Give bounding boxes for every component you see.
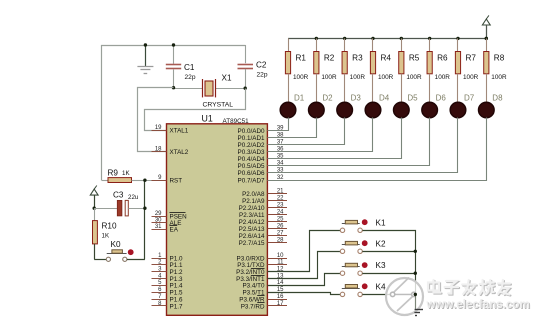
svg-text:100R: 100R: [435, 74, 451, 81]
pin 6 P1.5: [152, 292, 167, 294]
svg-text:32: 32: [277, 175, 284, 181]
svg-text:K0: K0: [111, 240, 121, 249]
svg-text:26: 26: [277, 223, 284, 229]
wire D3 to P0.2: [268, 118, 345, 145]
svg-text:100R: 100R: [321, 74, 337, 81]
resistor R5: [400, 37, 403, 40]
svg-text:D1: D1: [294, 94, 305, 103]
node J1: [93, 207, 96, 210]
svg-text:28: 28: [277, 237, 284, 243]
pin 26 P2.5/A13: [267, 228, 287, 230]
svg-text:XTAL2: XTAL2: [170, 149, 189, 156]
svg-text:R4: R4: [380, 54, 391, 63]
svg-text:100R: 100R: [378, 74, 394, 81]
op: microcontroller U1 AT89C51 body: [167, 124, 268, 315]
svg-text:1K: 1K: [102, 233, 110, 240]
pin 3 P1.2: [152, 271, 167, 273]
svg-text:D3: D3: [351, 94, 362, 103]
svg-text:U1: U1: [202, 114, 213, 124]
LED D7: [457, 74, 459, 103]
svg-text:100R: 100R: [293, 74, 309, 81]
resistor R9: [102, 180, 108, 182]
wire keys common to ground: [363, 231, 416, 309]
wire D7 to P0.6: [268, 118, 458, 173]
svg-text:P2.4/A12: P2.4/A12: [239, 219, 265, 226]
svg-text:P2.2/A10: P2.2/A10: [239, 205, 265, 212]
wire D5 to P0.4: [268, 118, 402, 159]
svg-text:www.elecfans.com: www.elecfans.com: [426, 298, 530, 311]
svg-text:100R: 100R: [463, 74, 479, 81]
svg-text:22: 22: [277, 195, 284, 201]
pin 22 P2.1/A9: [267, 200, 287, 202]
svg-text:16: 16: [277, 294, 284, 300]
svg-text:P0.5/AD5: P0.5/AD5: [238, 163, 265, 170]
LED D2: [316, 74, 318, 103]
pin 12 P3.2/INT0: [267, 271, 287, 273]
svg-text:22u: 22u: [128, 194, 139, 201]
pin 24 P2.3/A11: [267, 214, 287, 216]
wire P3.2 to K1: [268, 231, 341, 272]
svg-text:D8: D8: [492, 94, 503, 103]
LED D1: [288, 74, 290, 103]
svg-text:18: 18: [155, 146, 162, 152]
pin 13 P3.3/INT1: [267, 278, 287, 280]
svg-text:P0.3/AD3: P0.3/AD3: [238, 149, 265, 156]
wire P3.4 to K3: [268, 274, 341, 286]
capacitor C2: [245, 45, 247, 63]
svg-text:17: 17: [277, 301, 284, 307]
watermark text dianzifashaoyou: [429, 281, 511, 296]
pin 5 P1.4: [152, 285, 167, 287]
svg-text:P2.0/A8: P2.0/A8: [242, 191, 265, 198]
pin 35 P0.4/AD4: [267, 158, 287, 160]
wire D2 to P0.1: [268, 118, 317, 138]
pin 29 PSEN: [152, 216, 167, 218]
pin 30 ALE: [152, 222, 167, 224]
crystal X1: [174, 88, 203, 90]
wire D4 to P0.3: [268, 118, 373, 152]
svg-text:100R: 100R: [491, 74, 507, 81]
pin 18 XTAL2: [152, 151, 167, 153]
pin 25 P2.4/A12: [267, 221, 287, 223]
svg-text:AT89C51: AT89C51: [223, 118, 250, 125]
svg-text:P0.4/AD4: P0.4/AD4: [238, 156, 265, 163]
svg-text:K1: K1: [376, 218, 386, 227]
pin 37 P0.2/AD2: [267, 144, 287, 146]
svg-text:CRYSTAL: CRYSTAL: [203, 102, 234, 109]
svg-text:22p: 22p: [257, 72, 268, 79]
LED D3: [344, 74, 346, 103]
resistor R6: [428, 37, 431, 40]
svg-text:R7: R7: [465, 54, 476, 63]
pin 4 P1.3: [152, 278, 167, 280]
svg-text:R1: R1: [296, 54, 307, 63]
wire LED power rail: [288, 38, 486, 40]
wire to XTAL1: [145, 89, 246, 131]
svg-text:P1.7: P1.7: [170, 303, 183, 310]
svg-text:1K: 1K: [122, 170, 130, 177]
svg-text:25: 25: [277, 216, 284, 222]
svg-text:EA: EA: [170, 227, 179, 234]
wire top-left rail: [102, 46, 246, 181]
node C1/XTAL2 junction: [172, 86, 175, 89]
pin 17 P3.7/RD: [267, 305, 287, 307]
svg-text:R3: R3: [352, 54, 363, 63]
pin 2 P1.1: [152, 264, 167, 266]
wire P3.5 to K4: [268, 293, 341, 295]
pin 15 P3.5/T1: [267, 292, 287, 294]
pin 36 P0.3/AD3: [267, 151, 287, 153]
pin 11 P3.1/TXD: [267, 264, 287, 266]
pin 39 P0.0/AD0: [267, 130, 287, 132]
svg-text:R2: R2: [324, 54, 335, 63]
wire RST: [145, 180, 167, 182]
svg-text:P0.6/AD6: P0.6/AD6: [238, 170, 265, 177]
svg-text:P2.7/A15: P2.7/A15: [239, 240, 265, 247]
watermark logo circle: [386, 278, 423, 315]
resistor R1: [288, 38, 290, 51]
ground (keys): [415, 294, 417, 309]
pin 7 P1.6: [152, 299, 167, 301]
LED D4: [372, 74, 374, 103]
svg-text:C2: C2: [256, 61, 267, 70]
vertical reset net wire: [144, 180, 146, 259]
svg-text:X1: X1: [222, 74, 232, 83]
button K0: [94, 259, 106, 261]
wire D1 to P0.0: [268, 118, 289, 131]
resistor R8: [485, 37, 488, 40]
pin 27 P2.6/A14: [267, 235, 287, 237]
pin 9 RST: [152, 180, 167, 182]
svg-text:R6: R6: [437, 54, 448, 63]
svg-text:21: 21: [277, 188, 284, 194]
svg-text:P2.5/A13: P2.5/A13: [239, 226, 265, 233]
svg-text:P2.6/A14: P2.6/A14: [239, 233, 265, 240]
svg-text:P0.0/AD0: P0.0/AD0: [238, 128, 265, 135]
node K4/ground junction: [414, 293, 417, 296]
power +5V (reset): [94, 186, 97, 190]
pin 38 P0.1/AD1: [267, 137, 287, 139]
capacitor C3: [94, 208, 117, 210]
svg-text:100R: 100R: [350, 74, 366, 81]
pin 16 P3.6/WR: [267, 299, 287, 301]
resistor R7: [456, 37, 459, 40]
svg-text:R10: R10: [102, 222, 117, 231]
svg-text:C3: C3: [113, 191, 124, 200]
svg-text:D5: D5: [407, 94, 418, 103]
pin 1 P1.0: [152, 258, 167, 260]
LED D8: [486, 74, 488, 103]
svg-text:24: 24: [277, 209, 284, 215]
pin 21 P2.0/A8: [267, 193, 287, 195]
svg-text:27: 27: [277, 230, 284, 236]
svg-text:D6: D6: [436, 94, 447, 103]
resistor R10: [94, 208, 96, 220]
svg-text:P0.2/AD2: P0.2/AD2: [238, 142, 265, 149]
svg-text:P0.1/AD1: P0.1/AD1: [238, 135, 265, 142]
LED D6: [429, 74, 431, 103]
resistor R3: [343, 37, 346, 40]
pin 32 P0.7/AD7: [267, 180, 287, 182]
power +5V (LED rail): [486, 15, 489, 19]
pin 23 P2.2/A10: [267, 207, 287, 209]
svg-text:30: 30: [155, 218, 162, 224]
pin 31 EA: [152, 229, 167, 231]
pin 14 P3.4/T0: [267, 285, 287, 287]
svg-text:D2: D2: [322, 94, 333, 103]
svg-text:11: 11: [277, 260, 284, 266]
resistor R2: [315, 37, 318, 40]
svg-text:P0.7/AD7: P0.7/AD7: [238, 177, 265, 184]
LED D5: [401, 74, 403, 103]
svg-text:K3: K3: [376, 261, 386, 270]
svg-text:22p: 22p: [185, 74, 196, 81]
svg-text:31: 31: [155, 224, 162, 230]
svg-text:R8: R8: [494, 54, 505, 63]
svg-text:K2: K2: [376, 239, 386, 248]
svg-text:D4: D4: [379, 94, 390, 103]
capacitor C1: [173, 45, 175, 64]
pin 8 P1.7: [152, 305, 167, 307]
wire D6 to P0.5: [268, 118, 430, 166]
node C2/XTAL1 junction: [244, 87, 247, 90]
svg-text:19: 19: [155, 125, 162, 131]
svg-text:P2.1/A9: P2.1/A9: [242, 198, 265, 205]
svg-text:P3.7/RD: P3.7/RD: [241, 303, 265, 310]
svg-text:29: 29: [155, 211, 162, 217]
wire K0 to reset net: [127, 259, 145, 261]
svg-text:10: 10: [277, 253, 284, 259]
wire D8 to P0.7: [268, 118, 487, 181]
svg-text:RST: RST: [170, 178, 183, 185]
pin 33 P0.6/AD6: [267, 172, 287, 174]
svg-text:C1: C1: [184, 63, 195, 72]
wire to XTAL2: [138, 88, 174, 152]
pin 28 P2.7/A15: [267, 242, 287, 244]
ground (oscillator): [145, 45, 147, 66]
wire P3.3 to K2: [268, 252, 341, 279]
svg-text:P2.3/A11: P2.3/A11: [239, 212, 265, 219]
svg-text:R5: R5: [409, 54, 420, 63]
svg-text:XTAL1: XTAL1: [170, 127, 189, 134]
pin 19 XTAL1: [152, 130, 167, 132]
svg-text:D7: D7: [464, 94, 475, 103]
pin 10 P3.0/RXD: [267, 258, 287, 260]
svg-text:K4: K4: [376, 282, 386, 291]
resistor R4: [371, 37, 374, 40]
svg-text:100R: 100R: [406, 74, 422, 81]
svg-text:23: 23: [277, 202, 284, 208]
pin 34 P0.5/AD5: [267, 165, 287, 167]
svg-text:R9: R9: [108, 169, 119, 178]
